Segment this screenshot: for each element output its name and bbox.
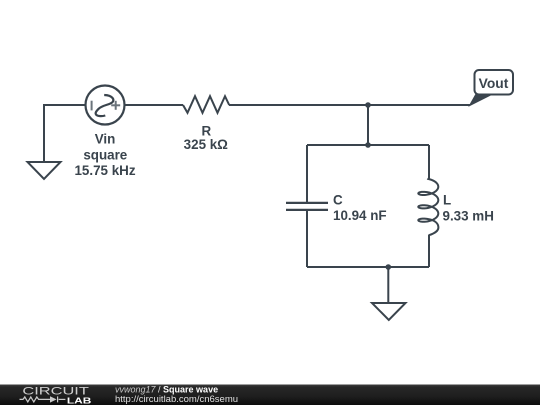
capacitor C [286, 203, 328, 210]
svg-text:LAB: LAB [67, 396, 92, 405]
node junction (tank top) [365, 142, 371, 148]
node junction (tank bottom) [386, 264, 392, 270]
wire [428, 145, 430, 180]
wire [387, 267, 389, 303]
minus terminal [91, 101, 93, 111]
wire [44, 104, 85, 106]
svg-text:L: L [443, 193, 451, 208]
node junction (top) [365, 102, 371, 108]
wire [307, 266, 429, 268]
inductor L [418, 178, 438, 235]
svg-text:Vin: Vin [95, 131, 116, 146]
footer caption [115, 384, 238, 404]
wire [306, 210, 308, 267]
svg-text:square: square [83, 147, 127, 162]
svg-text:Vout: Vout [479, 76, 509, 91]
wire [367, 105, 369, 145]
wire [428, 235, 430, 267]
svg-text:http://circuitlab.com/cn6semu: http://circuitlab.com/cn6semu [115, 394, 238, 405]
voltage source V1 Vin [86, 86, 125, 125]
svg-text:15.75 kHz: 15.75 kHz [74, 163, 135, 178]
svg-text:10.94 nF: 10.94 nF [333, 208, 387, 223]
svg-text:9.33 mH: 9.33 mH [443, 209, 494, 224]
wire [307, 144, 429, 146]
wire [43, 104, 45, 167]
wire [126, 104, 184, 106]
resistor R [183, 96, 229, 113]
node Vout flag box [475, 70, 514, 95]
node Vout flag tail [470, 94, 492, 106]
svg-text:C: C [333, 193, 343, 208]
plus terminal [111, 101, 120, 110]
svg-text:325 kΩ: 325 kΩ [184, 137, 229, 152]
ground (left) [28, 162, 61, 179]
ground (bottom) [372, 303, 406, 320]
wire [306, 145, 308, 203]
CircuitLab logo [20, 386, 92, 405]
wire [229, 104, 470, 106]
